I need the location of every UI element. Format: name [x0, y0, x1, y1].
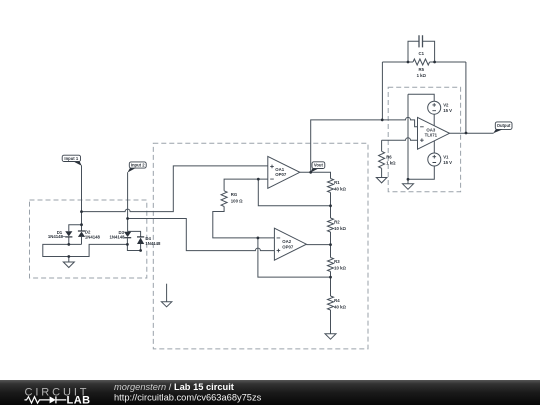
capacitor C1 — [419, 35, 423, 47]
wire R6 to OA3 plus input — [382, 138, 418, 141]
op-amp OA3 TL071 — [418, 117, 450, 149]
resistor R2 — [328, 218, 334, 232]
node Input 1 flag — [73, 161, 82, 166]
wire V2 top link — [408, 94, 434, 101]
dashed box instrumentation amp stage — [153, 143, 368, 349]
junction R5C1 left — [381, 119, 384, 122]
junction input1 to OA1 route — [80, 210, 83, 213]
junction OA2 minus node — [257, 237, 260, 240]
wire RG bottom to OA2 minus input — [213, 206, 275, 238]
wire R6 top lead — [381, 140, 383, 151]
junction node B — [329, 243, 332, 246]
svg-text:R3: R3 — [334, 259, 340, 264]
svg-text:1 kΩ: 1 kΩ — [386, 161, 396, 166]
junction R5 left — [407, 61, 410, 64]
logo diode — [50, 396, 56, 403]
wire OA3 output — [450, 132, 494, 134]
wire R3 to R4 node C — [330, 272, 332, 297]
junction rail ground — [407, 178, 410, 181]
svg-text:10 kΩ: 10 kΩ — [334, 226, 346, 231]
wire R6 bottom lead — [381, 168, 383, 177]
junction input1 D1 branch — [80, 223, 83, 226]
wire OA2 output to node B — [306, 244, 330, 246]
resistor R5 — [413, 59, 430, 65]
wire R4 to ground — [330, 310, 332, 334]
ground floating amp stage — [161, 302, 171, 307]
wire OA2 feedback to node C — [258, 238, 331, 277]
junction R5 right — [433, 61, 436, 64]
svg-text:LAB: LAB — [67, 394, 91, 405]
svg-text:V1: V1 — [443, 154, 449, 159]
svg-text:C1: C1 — [419, 51, 425, 56]
svg-text:1N4148: 1N4148 — [48, 234, 64, 239]
svg-text:40 kΩ: 40 kΩ — [334, 304, 346, 309]
diode D4 — [137, 236, 144, 238]
svg-text:10 kΩ: 10 kΩ — [334, 265, 346, 270]
wire C1 left lead — [408, 41, 419, 62]
wire bottom bus left — [43, 244, 128, 256]
wire Vout to OA3 minus input — [311, 117, 418, 172]
diode D3 — [124, 232, 131, 237]
svg-text:OP07: OP07 — [282, 244, 294, 249]
junction OA1 minus node — [257, 178, 260, 181]
svg-text:Input 2: Input 2 — [131, 163, 145, 168]
wire input1 vertical — [81, 166, 83, 232]
voltage source V1 — [428, 153, 441, 166]
svg-text:R5: R5 — [419, 67, 425, 72]
node Input 2 flag — [128, 168, 137, 173]
svg-text:Input 1: Input 1 — [64, 156, 78, 161]
svg-text:OP07: OP07 — [275, 172, 287, 177]
wire D1 branch — [69, 225, 82, 232]
wire R1 to R2 node A — [330, 193, 332, 219]
wire input1 to OA1 plus input — [82, 166, 268, 212]
ground R6 — [376, 178, 387, 183]
svg-text:V2: V2 — [443, 103, 449, 108]
svg-text:TL071: TL071 — [425, 133, 438, 138]
voltage source V2 — [428, 101, 441, 114]
wire D4 top link — [128, 231, 141, 237]
wire input2 to OA2 plus input — [128, 219, 275, 251]
logo resistor zigzag — [25, 397, 50, 403]
wire V2 to OA3 Vplus pin — [433, 114, 435, 126]
svg-text:morgenstern / Lab 15 circuit: morgenstern / Lab 15 circuit — [114, 382, 234, 392]
resistor RG — [221, 191, 227, 207]
op-amp OA2 OP07 — [274, 228, 306, 260]
junction input2 to OA2 route — [126, 217, 129, 220]
junction D4 bottom — [139, 249, 142, 252]
svg-text:40 kΩ: 40 kΩ — [334, 186, 346, 191]
wire R5 left lead — [382, 61, 413, 63]
junction D1 bus — [67, 243, 70, 246]
svg-text:R6: R6 — [386, 155, 392, 160]
resistor R1 — [328, 179, 334, 193]
svg-text:http://circuitlab.com/cv663a68: http://circuitlab.com/cv663a68y75zs — [114, 393, 262, 403]
wire RG top to OA1 minus input — [224, 179, 268, 191]
svg-text:R1: R1 — [334, 180, 340, 185]
footer bar — [0, 380, 540, 405]
ground clamp stage — [63, 262, 74, 268]
node Output flag — [493, 129, 503, 133]
op-amp OA1 OP07 — [268, 156, 300, 188]
wire V1 bottom link — [408, 166, 434, 179]
wire rail ground stub — [407, 179, 409, 184]
wire D1 bottom stub — [68, 237, 70, 244]
junction OA3 output node — [465, 132, 468, 135]
wire R5C1 right leg — [465, 62, 467, 133]
junction ground bus — [67, 255, 70, 258]
junction Vout node — [309, 171, 312, 174]
wire supply rail — [407, 94, 409, 179]
wire OA1 output to Vout node — [300, 172, 331, 178]
wire D2 bottom stub — [81, 237, 83, 245]
wire R2 to R3 node B — [330, 232, 332, 258]
wire OA1 feedback to node A — [258, 179, 330, 206]
svg-text:Output: Output — [497, 123, 511, 128]
svg-text:15 V: 15 V — [443, 108, 452, 113]
node Vout flag — [310, 168, 319, 172]
wire R5C1 left leg — [381, 62, 383, 120]
wire D3 bottom to D4 bottom — [127, 238, 140, 250]
wire input2 vertical — [127, 172, 129, 231]
svg-text:15 V: 15 V — [443, 160, 452, 165]
svg-text:RG: RG — [231, 192, 238, 197]
diode D2 — [78, 230, 85, 232]
ground resistor chain — [325, 334, 336, 340]
svg-text:R2: R2 — [334, 220, 340, 225]
ground supply rail — [403, 184, 414, 190]
wire OA3 Vminus pin to V1 — [433, 141, 435, 153]
svg-text:100 Ω: 100 Ω — [231, 198, 243, 203]
resistor R3 — [328, 258, 334, 272]
resistor R4 — [328, 296, 334, 310]
svg-text:1N4148: 1N4148 — [145, 241, 161, 246]
wire R5 right lead — [430, 61, 466, 63]
diode D1 — [65, 231, 72, 236]
svg-text:Vout: Vout — [314, 163, 324, 168]
junction D3 bus — [126, 243, 129, 246]
dashed box output amp stage — [388, 87, 460, 192]
resistor R6 — [379, 151, 385, 168]
junction node C — [329, 276, 332, 279]
svg-text:R4: R4 — [334, 298, 340, 303]
svg-text:1 kΩ: 1 kΩ — [417, 73, 427, 78]
dashed box input clamp stage — [30, 200, 147, 278]
wire C1 right lead — [423, 41, 435, 62]
junction node A — [329, 204, 332, 207]
wire floating ground stem — [166, 284, 168, 302]
svg-text:1N4148: 1N4148 — [110, 234, 126, 239]
wire ground stub clamp stage — [68, 257, 70, 263]
svg-text:1N4148: 1N4148 — [85, 235, 101, 240]
